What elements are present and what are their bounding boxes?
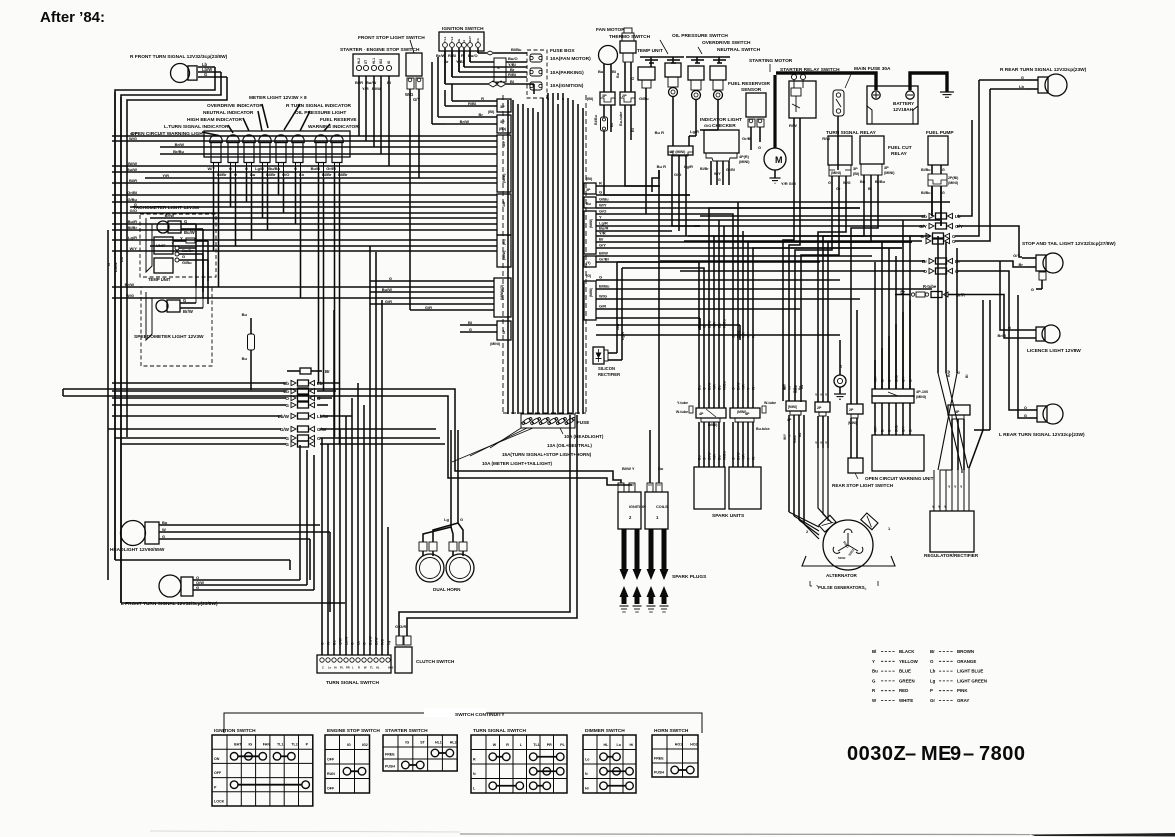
svg-text:(MINI): (MINI) [490, 342, 501, 346]
svg-text:O: O [351, 642, 355, 645]
svg-text:WHITE: WHITE [899, 698, 913, 703]
svg-text:Bl/W Y: Bl/W Y [622, 466, 635, 471]
svg-text:Bu: Bu [800, 385, 804, 389]
svg-text:HO2: HO2 [690, 743, 697, 747]
svg-text:–: – [963, 743, 974, 765]
svg-text:OPEN CIRCUIT WARNING UNIT: OPEN CIRCUIT WARNING UNIT [865, 476, 934, 481]
svg-text:Bl: Bl [468, 320, 472, 325]
rear stop light switch [832, 458, 894, 488]
svg-text:Hi: Hi [630, 743, 634, 747]
svg-text:Bu: Bu [598, 69, 604, 74]
svg-text:(MINI): (MINI) [737, 410, 746, 414]
spark plugs [620, 529, 708, 612]
svg-text:RECTIFIER: RECTIFIER [598, 372, 620, 377]
svg-text:G: G [718, 178, 721, 182]
svg-text:G/Y: G/Y [902, 426, 906, 432]
svg-text:Hi: Hi [585, 787, 589, 791]
svg-text:W/Y: W/Y [129, 246, 137, 251]
svg-text:(Bl): (Bl) [853, 172, 860, 176]
open circuit warning unit [865, 389, 934, 481]
svg-text:G: G [134, 202, 137, 207]
svg-text:(MINI): (MINI) [948, 181, 959, 185]
svg-text:Bu R: Bu R [657, 164, 666, 169]
svg-text:Bu/W: Bu/W [366, 80, 376, 85]
svg-text:RUN: RUN [327, 772, 335, 776]
meter bulb wire labels [207, 163, 348, 178]
svg-text:PINK: PINK [957, 688, 968, 693]
svg-text:Br: Br [599, 237, 604, 242]
starter switch drop wires [359, 76, 389, 166]
svg-text:G: G [460, 517, 463, 522]
svg-text:R: R [473, 758, 476, 762]
lamp headlight [110, 520, 330, 553]
svg-text:(Bl): (Bl) [586, 177, 593, 181]
overdrive switch [686, 40, 751, 146]
wire color legend [872, 649, 987, 703]
svg-text:L FRONT TURN SIGNAL 12V32: L FRONT TURN SIGNAL 12V32/3cp(23/8W) [121, 601, 218, 607]
svg-text:Br: Br [930, 649, 935, 654]
svg-text:Hi: Hi [334, 666, 337, 670]
svg-text:IG2: IG2 [362, 743, 368, 747]
svg-text:G/Y: G/Y [599, 243, 606, 248]
frame ground eyelet [834, 340, 846, 399]
svg-text:NEUTRAL SWITCH: NEUTRAL SWITCH [717, 47, 761, 53]
svg-text:IG2: IG2 [379, 59, 383, 64]
svg-text:RED: RED [899, 688, 908, 693]
svg-text:Lg/R: Lg/R [684, 164, 693, 169]
svg-text:W/G: W/G [126, 293, 134, 298]
svg-text:(Bl): (Bl) [488, 110, 495, 114]
temp unit [637, 48, 663, 200]
svg-text:Bl/W: Bl/W [737, 452, 741, 460]
svg-text:Bl/Bu: Bl/Bu [511, 47, 522, 52]
svg-text:SPARK PLUGS: SPARK PLUGS [672, 574, 707, 580]
svg-text:HORN SWITCH: HORN SWITCH [654, 728, 689, 734]
svg-text:G: G [839, 365, 843, 368]
wire rows out of right connector column [596, 181, 950, 310]
svg-text:9: 9 [950, 743, 961, 765]
svg-text:PR: PR [547, 743, 552, 747]
svg-text:R/Bl: R/Bl [468, 101, 476, 106]
svg-text:Gr/Bl: Gr/Bl [599, 257, 609, 262]
svg-text:Y/R: Y/R [742, 454, 746, 460]
svg-text:METER LIGHT 12V3W × 8: METER LIGHT 12V3W × 8 [249, 95, 307, 101]
OCWU feed verticals [875, 220, 910, 389]
svg-text:OFF: OFF [214, 771, 222, 775]
svg-text:ON: ON [214, 757, 220, 761]
svg-text:TURN SIGNAL RELAY: TURN SIGNAL RELAY [826, 130, 877, 136]
svg-text:R TURN SIGNAL INDICATOR: R TURN SIGNAL INDICATOR [286, 103, 352, 109]
trunk top stubs [548, 93, 563, 100]
dashed harness boundary [503, 95, 586, 413]
svg-text:R REAR TURN SIGNAL 12V32c: R REAR TURN SIGNAL 12V32cp(23W) [1000, 67, 1087, 73]
svg-text:Bu: Bu [242, 356, 248, 361]
svg-text:Lg: Lg [444, 517, 449, 522]
svg-text:G: G [162, 534, 165, 539]
svg-text:TACHOMETER LIGHT 12V3W: TACHOMETER LIGHT 12V3W [133, 205, 200, 211]
svg-text:Bl/W: Bl/W [708, 382, 712, 390]
svg-text:N: N [585, 772, 588, 776]
svg-text:W/Y: W/Y [714, 172, 721, 176]
right long verticals [938, 236, 990, 468]
dimmer switch table [583, 728, 636, 793]
svg-text:W/Bu: W/Bu [723, 381, 727, 390]
svg-text:O: O [930, 659, 934, 664]
turn signal switch connector [317, 655, 394, 686]
svg-text:OIL PRESSURE LIGHT: OIL PRESSURE LIGHT [295, 110, 346, 116]
svg-text:10A(IGNITION): 10A(IGNITION) [550, 83, 584, 89]
svg-text:ALTERNATOR: ALTERNATOR [826, 573, 858, 578]
engine stop switch table [325, 728, 380, 793]
svg-text:W/Y: W/Y [782, 383, 786, 390]
svg-text:G/O: G/O [674, 172, 681, 177]
svg-text:Y: Y [599, 215, 602, 220]
svg-text:15A(TURN SIGNAL+STOP LIGHT+H: 15A(TURN SIGNAL+STOP LIGHT+HORN) [502, 452, 592, 457]
svg-text:Gr: Gr [930, 698, 935, 703]
ignition switch drop wires [432, 51, 478, 124]
svg-text:IGNITION: IGNITION [629, 505, 646, 509]
starter switch table [383, 728, 457, 771]
svg-text:R/Bl: R/Bl [508, 72, 516, 77]
svg-text:Y: Y [171, 241, 174, 246]
svg-text:G: G [631, 77, 635, 80]
svg-text:G: G [703, 457, 707, 460]
svg-text:C: C [322, 666, 324, 670]
svg-text:(Bl): (Bl) [587, 97, 594, 101]
fuel cut relay [860, 136, 912, 208]
svg-text:G: G [732, 457, 736, 460]
svg-text:G/O: G/O [130, 208, 137, 213]
svg-text:Y/R: Y/R [713, 384, 717, 390]
svg-text:Lb: Lb [930, 669, 936, 674]
svg-text:Bu: Bu [718, 455, 722, 460]
svg-text:COILS: COILS [656, 505, 668, 509]
svg-text:BLUE: BLUE [899, 669, 911, 674]
svg-text:FRONT STOP LIGHT SWITCH: FRONT STOP LIGHT SWITCH [358, 35, 425, 41]
svg-text:Y-tube: Y-tube [677, 401, 688, 405]
svg-text:G: G [942, 168, 945, 172]
rear harness connector chain [895, 213, 965, 298]
svg-text:G: G [1031, 287, 1034, 292]
connector 3P mini (oil/overdrive) [657, 146, 693, 226]
svg-text:IG: IG [347, 743, 351, 747]
svg-text:Lg: Lg [387, 641, 391, 645]
svg-text:Bl/R: Bl/R [129, 178, 137, 183]
svg-text:M: M [775, 155, 783, 165]
meter bank labels [131, 95, 359, 137]
svg-text:TL2: TL2 [291, 743, 297, 747]
svg-text:Lb/W: Lb/W [113, 262, 118, 272]
svg-text:Bl: Bl [631, 128, 635, 132]
svg-text:Bl/Br: Bl/Br [700, 167, 709, 171]
svg-text:TL: TL [370, 666, 374, 670]
starting motor [749, 58, 796, 186]
svg-text:HEADLIGHT 12V60/55W: HEADLIGHT 12V60/55W [110, 547, 165, 553]
left edge wire bundle [106, 92, 124, 603]
svg-text:Bu: Bu [586, 202, 591, 206]
ignition switch [436, 26, 484, 64]
svg-text:FUEL PUMP: FUEL PUMP [926, 130, 954, 136]
fuse box [527, 48, 591, 98]
svg-text:FUSE: FUSE [577, 420, 589, 425]
svg-text:R FRONT TURN SIGNAL 12V32: R FRONT TURN SIGNAL 12V32/3cp(23/8W) [130, 54, 228, 60]
regulator wires [932, 370, 970, 511]
svg-text:R: R [506, 743, 509, 747]
svg-text:4P-100: 4P-100 [916, 390, 928, 394]
svg-text:BLACK: BLACK [899, 649, 915, 654]
svg-text:YELLOW: YELLOW [899, 659, 919, 664]
svg-text:Br/Bu: Br/Bu [173, 149, 184, 154]
svg-text:G/Bu: G/Bu [182, 260, 192, 265]
svg-text:Gr/Bl: Gr/Bl [726, 168, 735, 172]
svg-text:FUEL RESERVE: FUEL RESERVE [320, 117, 357, 123]
svg-text:Bl/W: Bl/W [708, 452, 712, 460]
svg-text:G G/R: G G/R [395, 624, 406, 629]
svg-text:Bu/W: Bu/W [127, 167, 137, 172]
svg-text:BAT: BAT [234, 743, 242, 747]
svg-text:G: G [599, 275, 602, 280]
svg-text:Gr: Gr [836, 187, 841, 191]
svg-text:STARTER SWITCH: STARTER SWITCH [385, 728, 428, 734]
alternator connectors [786, 401, 863, 425]
diagram title After '84 [40, 9, 105, 26]
svg-text:Br/W: Br/W [183, 309, 193, 314]
svg-text:STARTING MOTOR: STARTING MOTOR [749, 58, 793, 64]
instrument wire links [196, 224, 208, 308]
svg-text:10A(FAN MOTOR): 10A(FAN MOTOR) [550, 56, 591, 62]
svg-text:Bu/R: Bu/R [128, 219, 137, 224]
svg-text:(MINI): (MINI) [884, 171, 895, 175]
fuel pump to chain [932, 186, 941, 226]
svg-text:G: G [703, 387, 707, 390]
svg-text:Bl: Bl [510, 79, 514, 84]
svg-text:3P (MINI): 3P (MINI) [670, 150, 686, 154]
svg-text:LIGHT BLUE: LIGHT BLUE [957, 669, 983, 674]
meter light cluster (8 bulbs) [204, 131, 350, 163]
svg-text:G/Bu: G/Bu [639, 96, 649, 101]
svg-text:3P: 3P [853, 167, 858, 171]
silicon rectifier [593, 300, 625, 377]
svg-text:IGNITION SWITCH: IGNITION SWITCH [214, 728, 256, 734]
svg-text:DUAL HORN: DUAL HORN [433, 587, 461, 592]
svg-text:FREE: FREE [654, 757, 664, 761]
spark unit wire labels [698, 319, 756, 338]
ignition coil feed wires [650, 170, 659, 483]
svg-text:PUSH: PUSH [654, 771, 664, 775]
svg-text:SPEEDOMETER LIGHT 12V3W: SPEEDOMETER LIGHT 12V3W [134, 334, 204, 340]
spark unit connectors [676, 401, 776, 519]
svg-text:FAN MOTOR: FAN MOTOR [596, 27, 625, 33]
svg-text:G: G [469, 327, 472, 332]
svg-text:TURN SIGNAL SWITCH: TURN SIGNAL SWITCH [326, 680, 379, 686]
svg-text:Bu: Bu [798, 433, 802, 437]
svg-text:W: W [493, 743, 497, 747]
svg-text:R-tube: R-tube [923, 284, 937, 289]
svg-text:OFF: OFF [327, 787, 335, 791]
svg-text:Bu-tube: Bu-tube [619, 112, 623, 126]
svg-text:G/R: G/R [599, 304, 606, 309]
oil pressure switch [655, 33, 729, 146]
svg-text:Bu: Bu [698, 385, 702, 390]
svg-text:Br/W: Br/W [165, 213, 175, 218]
scan artifact bottom edge [150, 831, 1175, 837]
connector chain wires [108, 383, 445, 444]
rear chain feed wires [660, 216, 925, 271]
ignition switch wiring to fuse box [445, 47, 534, 94]
svg-text:Bl: Bl [872, 649, 876, 654]
svg-text:DIMMER SWITCH: DIMMER SWITCH [585, 728, 625, 734]
svg-text:3P: 3P [586, 188, 591, 192]
svg-text:Bl/W: Bl/W [599, 251, 608, 256]
svg-text:HIGH BEAM INDICATOR: HIGH BEAM INDICATOR [187, 117, 243, 123]
svg-text:STARTER · ENGINE STOP SWITCH: STARTER · ENGINE STOP SWITCH [340, 47, 420, 53]
svg-text:R/W: R/W [789, 123, 797, 128]
svg-text:(G): (G) [586, 274, 592, 278]
svg-text:STOP AND TAIL LIGHT 12V32/: STOP AND TAIL LIGHT 12V32/3cp(27/8W) [1022, 241, 1116, 247]
inline fuse below fan connector [601, 105, 608, 185]
svg-text:TURN SIGNAL SWITCH: TURN SIGNAL SWITCH [473, 728, 526, 734]
svg-text:G: G [363, 642, 367, 645]
svg-text:G: G [285, 403, 289, 408]
turn signal switch wires [321, 246, 391, 655]
svg-text:G: G [285, 436, 289, 441]
svg-text:Lg/R: Lg/R [128, 235, 137, 240]
svg-text:BAT: BAT [468, 36, 472, 42]
connector column right [584, 177, 596, 320]
svg-text:10A(PARKING): 10A(PARKING) [550, 70, 584, 76]
svg-text:Gr/Bl: Gr/Bl [127, 190, 137, 195]
svg-text:500Ω: 500Ω [838, 556, 846, 560]
svg-text:10A (METER LIGHT+TAILLIGHT): 10A (METER LIGHT+TAILLIGHT) [482, 461, 553, 466]
svg-text:Y/R: Y/R [713, 454, 717, 460]
svg-text:G: G [828, 181, 831, 185]
main fuse 30A [822, 66, 891, 170]
svg-text:CHECKER: CHECKER [712, 123, 736, 129]
svg-text:Bl: Bl [868, 187, 872, 191]
wire rows into left connector column [112, 96, 497, 251]
svg-text:Bl: Bl [965, 375, 969, 378]
svg-text:Bu/O: Bu/O [508, 56, 518, 61]
svg-text:G: G [599, 190, 602, 195]
svg-text:G: G [182, 254, 185, 259]
svg-text:WARNING INDICATOR: WARNING INDICATOR [308, 124, 359, 130]
svg-text:NEUTRAL INDICATOR: NEUTRAL INDICATOR [203, 110, 254, 116]
svg-text:HL1: HL1 [372, 58, 376, 64]
svg-text:Bu R: Bu R [655, 130, 664, 135]
svg-text:Lb: Lb [119, 257, 124, 262]
svg-text:Lb/W: Lb/W [345, 636, 349, 645]
connector column left (3P 3P 11P 14P) [488, 99, 511, 346]
svg-text:R/G: R/G [381, 639, 385, 645]
starter engine stop switch connector [340, 35, 425, 91]
svg-text:Bu/W: Bu/W [382, 287, 392, 292]
svg-text:N: N [473, 772, 476, 776]
svg-text:R/Bu: R/Bu [794, 386, 798, 393]
svg-text:Bl/Bu: Bl/Bu [921, 168, 930, 172]
svg-text:W/Y: W/Y [599, 203, 607, 208]
svg-text:(MINI): (MINI) [739, 160, 750, 164]
svg-text:G: G [389, 276, 392, 281]
svg-text:Bu: Bu [162, 520, 168, 525]
svg-text:Bl/Br: Bl/Br [895, 424, 899, 432]
svg-text:2P: 2P [849, 408, 854, 412]
turn signal switch table [471, 728, 567, 793]
indicator light checker [700, 117, 750, 185]
svg-text:LOCK: LOCK [214, 800, 225, 804]
svg-text:R/W: R/W [947, 370, 951, 377]
starter relay switch [780, 67, 840, 200]
lamp R front turn signal [115, 54, 228, 603]
part number 0030Z-ME9-7800 [847, 743, 1026, 765]
svg-text:(MINI): (MINI) [848, 421, 857, 425]
svg-text:TL1: TL1 [277, 743, 283, 747]
svg-text:PR: PR [346, 666, 350, 670]
svg-text:Lg/R: Lg/R [621, 332, 625, 340]
svg-text:BATTERY: BATTERY [893, 101, 914, 106]
svg-text:CLUTCH SWITCH: CLUTCH SWITCH [416, 659, 455, 664]
svg-text:W-tube: W-tube [676, 410, 688, 414]
svg-text:W/G: W/G [599, 294, 607, 299]
svg-text:Bl/Bu: Bl/Bu [921, 191, 930, 195]
wire rows into MINI G connector [112, 276, 494, 310]
horn switch table [652, 728, 698, 777]
svg-text:Bu: Bu [718, 385, 722, 390]
svg-text:Br/W: Br/W [125, 282, 135, 287]
svg-text:GRAY: GRAY [957, 698, 969, 703]
svg-text:Br: Br [325, 369, 330, 374]
svg-text:FREE: FREE [385, 753, 395, 757]
svg-text:INDICATOR LIGHT: INDICATOR LIGHT [700, 117, 742, 123]
spark unit wires [698, 330, 756, 467]
lamp L rear turn signal [999, 404, 1085, 438]
svg-text:FUEL CUT: FUEL CUT [888, 145, 912, 151]
svg-text:Bu: Bu [872, 669, 878, 674]
svg-text:Bu/W: Bu/W [369, 636, 373, 645]
svg-text:(Y): (Y) [586, 261, 591, 265]
svg-text:G: G [196, 585, 199, 590]
svg-text:SWITCH CONTINUITY: SWITCH CONTINUITY [455, 712, 505, 718]
svg-text:HO1: HO1 [675, 743, 682, 747]
svg-text:HL2: HL2 [450, 741, 457, 745]
svg-text:SENSOR: SENSOR [741, 87, 762, 93]
svg-text:REAR STOP LIGHT SWITCH: REAR STOP LIGHT SWITCH [832, 483, 894, 488]
lamp stop and taillight [1013, 241, 1116, 292]
svg-text:Bl/W: Bl/W [375, 637, 379, 645]
svg-text:Gr/Bl: Gr/Bl [742, 136, 752, 141]
svg-text:TEMP UNIT: TEMP UNIT [148, 277, 171, 282]
svg-text:Lg: Lg [930, 678, 936, 683]
svg-text:Lg/R: Lg/R [690, 129, 699, 134]
inline fuse (Bu) [242, 312, 255, 390]
svg-text:W-tube: W-tube [764, 401, 776, 405]
svg-text:W/G: W/G [843, 181, 851, 185]
svg-text:Bu: Bu [860, 180, 866, 184]
spare2 [0, 0, 1, 1]
wire rows into 6P connector [460, 320, 497, 332]
turn signal relay [826, 130, 877, 205]
svg-text:G: G [204, 72, 207, 77]
svg-text:LICENCE LIGHT 12V8W: LICENCE LIGHT 12V8W [1027, 348, 1081, 354]
svg-text:TL1: TL1 [443, 36, 447, 42]
ignition switch continuity table [212, 728, 313, 806]
svg-text:OVERDRIVE INDICATOR: OVERDRIVE INDICATOR [207, 103, 263, 109]
clutch switch [395, 415, 577, 673]
svg-text:G/R: G/R [385, 299, 392, 304]
svg-text:PUSH: PUSH [385, 765, 395, 769]
svg-text:P: P [930, 688, 933, 693]
svg-text:RELAY: RELAY [891, 151, 908, 157]
svg-text:3P: 3P [884, 166, 889, 170]
